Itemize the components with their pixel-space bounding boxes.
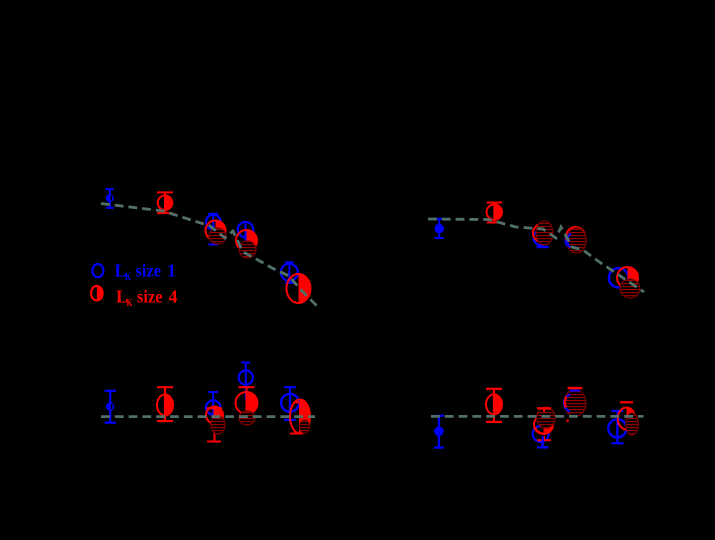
BL5 blue marker (281, 394, 299, 412)
TL2 red point errorbar (157, 192, 173, 213)
BL5 red errorbar (290, 402, 306, 433)
TR4 blue marker arc (566, 231, 584, 249)
TR1 blue filled marker (434, 224, 444, 234)
TL3 hatched ellipse (209, 228, 226, 244)
TL1 blue marker (106, 194, 114, 202)
BR3 hatched ellipse (536, 407, 555, 428)
TL5 blue errorbar (285, 262, 294, 283)
BL3 red half-filled marker (215, 407, 224, 424)
TR5 blue marker (609, 268, 628, 287)
BR4 blue top cap (570, 390, 580, 392)
BL1 blue errorbar (105, 391, 116, 423)
BR3 red errorbar (537, 408, 551, 440)
TR4 hatched ellipse (567, 228, 586, 253)
TR2 red errorbar (487, 203, 502, 223)
BR2 red half-filled marker (494, 394, 502, 414)
TR2 red half-filled marker (494, 204, 502, 219)
BR3 red bottom arc (535, 427, 550, 434)
dashed fit line top-left panel (101, 204, 317, 307)
BR3 red half-filled marker (544, 415, 554, 434)
BR3 blue marker arc (533, 426, 549, 442)
legend blue marker (92, 264, 103, 277)
TR3 red half-filled marker (542, 224, 551, 242)
TL3 red half-filled marker (216, 221, 226, 241)
BL3 red errorbar (207, 408, 223, 441)
BL3 blue marker (206, 400, 220, 414)
legend red marker (97, 286, 103, 300)
BL4 red errorbar (239, 387, 255, 415)
TR3 blue bottom cap (537, 246, 549, 248)
TR1 blue point errorbar (435, 219, 444, 238)
BR4 blue arc sliver (564, 395, 570, 412)
BR4 red speck (566, 419, 569, 422)
TL4 blue marker (238, 222, 253, 237)
BR1 blue errorbar (434, 416, 444, 448)
BL5 hatched ellipse (300, 420, 310, 433)
TL2 red half-filled marker (165, 195, 172, 210)
TL4 blue errorbar (245, 222, 247, 244)
BR4 red left arc (565, 397, 567, 408)
BL5 red half-filled marker (300, 400, 310, 434)
BR5 blue marker (608, 419, 626, 437)
TR5 red half-filled marker (628, 267, 639, 288)
BR5 red errorbar top cap (620, 401, 633, 403)
dashed zero line bottom-left panel (101, 415, 315, 418)
BR4 red half-filled marker (575, 392, 585, 412)
dashed fit line top-right panel (428, 219, 644, 292)
TL1 blue point errorbar (106, 189, 114, 208)
dashed zero line bottom-right panel (431, 415, 644, 418)
BR5 red half-filled marker (627, 408, 636, 430)
TR5 hatched ellipse (620, 279, 640, 298)
BL4 blue errorbar (241, 363, 250, 401)
BL2 red half-filled marker (165, 395, 173, 416)
BL5 blue errorbar (284, 387, 296, 420)
BR1 blue filled marker (434, 427, 444, 437)
BL4 blue marker (239, 371, 253, 385)
TL4 hatched ellipse (239, 241, 256, 258)
BR3 blue bottom errorbar (537, 436, 549, 447)
TL3 blue errorbar (208, 214, 218, 245)
svg-text:LKsize1: LKsize1 (115, 261, 177, 284)
BR4 hatched ellipse (564, 390, 586, 417)
TL5 red half-filled marker (299, 274, 311, 303)
BL2 red errorbar (157, 387, 173, 421)
BL4 hatched ellipse (239, 411, 255, 425)
svg-text:LKsize4: LKsize4 (116, 287, 178, 310)
TL4 red half-filled marker (247, 230, 258, 251)
BR4 red top cap (568, 387, 583, 389)
BL3 hatched ellipse (211, 416, 225, 434)
BR5 blue errorbar (611, 411, 623, 443)
TR3 blue marker arc (534, 230, 550, 246)
TL3 blue marker (206, 215, 221, 230)
BR4 blue marker arc (565, 393, 583, 411)
BR5 hatched ellipse (626, 413, 639, 435)
BL4 red half-filled marker (247, 392, 258, 414)
TR4 red half-filled marker (576, 227, 586, 246)
BL3 blue errorbar (208, 392, 218, 424)
TR4 blue arc sliver (567, 234, 571, 248)
BR2 red errorbar (486, 389, 502, 422)
BL1 blue marker (106, 402, 114, 410)
TL5 blue marker (281, 264, 298, 281)
TR3 hatched ellipse (536, 221, 553, 245)
